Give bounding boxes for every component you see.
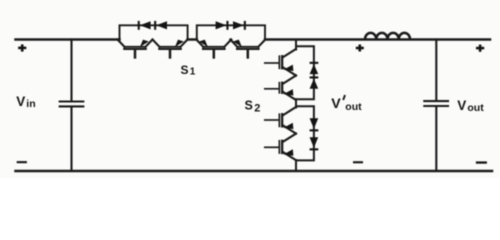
diode D7 (points down)	[310, 118, 319, 131]
wire top rail right segment	[265, 38, 490, 41]
transistor Q5 (S2 upper module top IGBT)	[265, 49, 296, 76]
wire S2 bottom stub	[295, 160, 297, 171]
diode D3 (points right)	[216, 21, 229, 30]
wire S2 middle stub	[295, 99, 297, 107]
svg-text:in: in	[26, 98, 35, 110]
wire input capacitor bottom lead	[70, 107, 72, 171]
transistor Q2 (S1 module1 right IGBT)	[153, 40, 188, 58]
transistor Q7 (S2 lower module top IGBT)	[265, 107, 296, 134]
node v'out plus terminal	[356, 45, 364, 52]
wire bottom rail	[16, 170, 493, 173]
wire S2 branch top stub	[295, 40, 297, 50]
svg-text:out: out	[467, 102, 484, 114]
wire output capacitor top lead	[435, 40, 437, 101]
wire top rail left segment	[16, 38, 120, 41]
wire input capacitor top lead	[70, 40, 72, 101]
wire top rail middle segment between S1 modules	[188, 38, 197, 41]
svg-text:out: out	[345, 101, 362, 113]
wire S2 upper diode loop	[296, 46, 314, 99]
svg-text:S: S	[181, 63, 189, 77]
svg-text:V: V	[16, 94, 25, 109]
node Vin plus terminal	[18, 44, 26, 51]
node v'out minus terminal	[353, 161, 363, 163]
transistor Q6 (S2 upper module bottom IGBT)	[265, 76, 296, 101]
node Vin minus terminal	[17, 161, 27, 163]
transistor Q1 (S1 module1 left IGBT)	[118, 40, 153, 58]
label S1	[181, 63, 196, 78]
diode D5 (points up)	[310, 62, 319, 74]
label Vout	[457, 98, 484, 114]
diode D2 (points left)	[154, 21, 167, 30]
diode D8 (points down)	[310, 137, 319, 150]
transistor Q8 (S2 lower module bottom IGBT)	[265, 134, 296, 161]
label Vin	[16, 94, 35, 110]
svg-text:V: V	[331, 96, 341, 112]
node Vout minus terminal	[476, 161, 487, 163]
capacitor Cout	[424, 100, 448, 102]
wire S2 lower diode loop	[296, 106, 314, 160]
label v'out	[331, 96, 362, 113]
wire S1 module2 diode loop	[197, 25, 265, 39]
wire output capacitor bottom lead	[435, 107, 437, 171]
capacitor Cin	[60, 100, 84, 102]
wire S1 module1 diode loop	[120, 25, 188, 39]
svg-text:S: S	[245, 99, 253, 113]
node Vout plus terminal	[476, 45, 484, 52]
svg-text:2: 2	[254, 103, 260, 115]
diode D1 (points left)	[138, 21, 151, 30]
diode D4 (points right)	[233, 21, 246, 30]
transistor Q3 (S1 module2 left IGBT)	[196, 40, 231, 58]
svg-text:1: 1	[190, 67, 196, 78]
transistor Q4 (S1 module2 right IGBT)	[230, 40, 265, 58]
inductor L	[365, 33, 410, 39]
svg-text:V: V	[457, 98, 466, 113]
label S2	[245, 99, 261, 115]
diode D6 (points up)	[310, 76, 319, 88]
